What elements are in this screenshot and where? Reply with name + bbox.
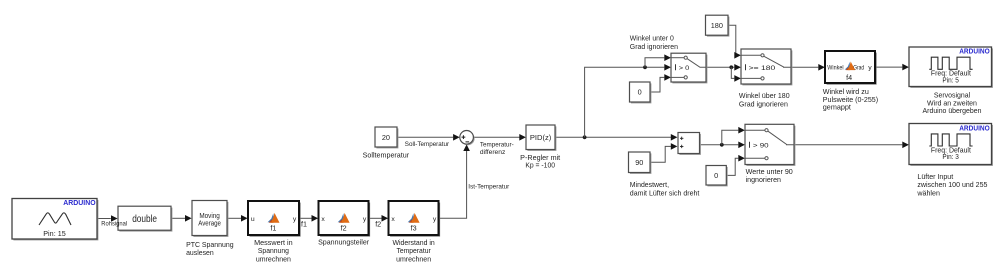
block: Arduino PWM Pin 3 (909, 124, 993, 166)
svg-text:f4: f4 (846, 73, 852, 82)
svg-text:x: x (391, 216, 395, 223)
svg-text:y: y (433, 216, 437, 223)
svg-text:180: 180 (711, 21, 723, 30)
block: constant 0 (lower) (706, 166, 728, 187)
svg-text:ARDUINO: ARDUINO (959, 124, 990, 133)
junction dot before switch1 (643, 65, 647, 69)
caption: Werte unter 90 ingnorieren (746, 167, 793, 184)
svg-text:Soll-Temperatur: Soll-Temperatur (405, 141, 450, 148)
svg-text:Rohsignal: Rohsignal (101, 221, 127, 228)
wire: constant 0 -> switch1 bottom input (650, 74, 671, 92)
caption: Winkel wird zu Pulsweite gemappt (823, 87, 878, 111)
svg-text:f2: f2 (341, 224, 347, 233)
svg-text:Solltemperatur: Solltemperatur (363, 150, 410, 159)
wire f2: f2 -> f3 (369, 215, 388, 222)
svg-text:gemappt: gemappt (823, 103, 851, 112)
junction dot before switch3 (720, 143, 724, 147)
block: sum junction circle (460, 131, 475, 146)
signal label Soll-Temperatur (405, 141, 450, 148)
svg-text:double: double (132, 214, 157, 225)
svg-text:ingnorieren: ingnorieren (746, 175, 781, 184)
block: switch2 greater equal 180 (741, 49, 792, 85)
svg-text:damit Lüfter sich dreht: damit Lüfter sich dreht (630, 188, 700, 197)
block: data type conversion double (118, 206, 172, 231)
wire: switch3 -> PWM pin3 (794, 142, 909, 149)
svg-text:Arduino übergeben: Arduino übergeben (923, 106, 982, 115)
svg-text:f3: f3 (411, 224, 417, 233)
svg-text:Grad ignorieren: Grad ignorieren (739, 99, 788, 108)
wire: Moving Average -> f1 (227, 215, 247, 222)
block: MATLAB Function f4 (825, 51, 877, 85)
signal label Rohsignal (101, 221, 127, 228)
wire f1: f1 -> f2 (299, 215, 318, 222)
block: constant 180 (706, 15, 730, 36)
svg-text:ARDUINO: ARDUINO (959, 47, 990, 56)
block: sum2 add rectangle (678, 133, 701, 155)
svg-text:0: 0 (714, 171, 718, 180)
wire branch: junction down to switch2 bottom input (731, 67, 741, 81)
block: constant 0 (upper) (630, 82, 652, 103)
block: MATLAB Function f1 (248, 201, 301, 237)
caption: Solltemperatur (363, 150, 410, 159)
block: Arduino PWM Pin 5 (909, 47, 993, 88)
wire: switch2 -> f4 (791, 64, 825, 71)
svg-text:20: 20 (382, 133, 390, 142)
signal label Ist-Temperatur (468, 184, 510, 191)
caption: Winkel unter 0 Grad ignorieren (630, 34, 678, 51)
caption: P-Regler mit Kp = -100 (520, 153, 560, 170)
caption: Widerstand in Temperatur umrechnen (392, 238, 434, 263)
svg-text:umrechnen: umrechnen (256, 254, 291, 263)
svg-text:f1: f1 (301, 219, 307, 228)
svg-text:y: y (868, 65, 872, 72)
wire Rohsignal: Arduino in -> double (97, 215, 117, 222)
block: Arduino Analog Input Pin 15 (12, 198, 98, 240)
wire: sum2 -> switch3 middle input (700, 142, 745, 149)
svg-text:auslesen: auslesen (186, 248, 214, 257)
wire branch: junction up to switch3 top input (722, 127, 745, 145)
svg-text:y: y (363, 216, 367, 223)
svg-text:f2: f2 (375, 219, 381, 228)
svg-text:>= 180: >= 180 (749, 65, 776, 72)
svg-text:umrechnen: umrechnen (396, 254, 431, 263)
svg-text:Temperatur-: Temperatur- (480, 141, 514, 148)
svg-text:ARDUINO: ARDUINO (63, 198, 95, 207)
caption: PTC Spannung auslesen (186, 240, 234, 257)
signal label f2 (375, 219, 381, 228)
svg-text:90: 90 (635, 158, 643, 167)
wire: constant 0b -> switch3 bottom input (727, 155, 745, 176)
block: MATLAB Function f3 (389, 201, 441, 237)
block: Moving Average (192, 201, 228, 237)
signal label f1 (301, 219, 307, 228)
svg-text:> 0: > 0 (679, 65, 690, 72)
svg-text:Grad: Grad (853, 65, 864, 72)
block: constant 20 Solltemperatur (375, 127, 398, 148)
svg-text:f1: f1 (270, 224, 276, 233)
caption: Messwert in Spannung umrechnen (254, 238, 293, 263)
svg-text:Average: Average (198, 219, 221, 228)
caption: Spannungsteiler (318, 238, 370, 247)
block: switch1 greater than 0 (671, 53, 707, 83)
svg-text:Winkel: Winkel (827, 65, 844, 72)
block: PID(z) controller (526, 125, 556, 151)
wire Soll-Temperatur: constant 20 -> sum (397, 134, 460, 141)
svg-text:x: x (321, 216, 325, 223)
wire: constant 180 -> switch2 top input (728, 25, 741, 58)
wire: switch1 -> switch2 middle input (706, 64, 741, 71)
svg-text:Spannungsteiler: Spannungsteiler (318, 238, 370, 247)
signal label Temperatur-differenz (480, 141, 514, 156)
caption: Servosignal Wird an zweiten Arduino uebergeben (923, 91, 982, 116)
wire: constant 90 -> sum2 bottom input (650, 143, 677, 162)
wire branch: junction up to switch1 top input (645, 54, 671, 67)
block: constant 90 Mindestwert (629, 152, 652, 174)
svg-text:Ist-Temperatur: Ist-Temperatur (468, 184, 510, 191)
wire: double -> Moving Average (171, 215, 191, 222)
caption: Mindestwert damit Luefter sich dreht (630, 180, 700, 197)
wire: PID -> sum2 lower branch (555, 134, 677, 141)
junction dot on PID output (583, 135, 587, 139)
junction dot before switch2 (729, 65, 733, 69)
svg-text:Pin: 3: Pin: 3 (942, 152, 959, 161)
svg-text:Kp = -100: Kp = -100 (525, 161, 555, 170)
svg-text:Pin: 15: Pin: 15 (43, 229, 66, 238)
block: MATLAB Function f2 (319, 201, 371, 237)
svg-text:differenz: differenz (480, 149, 505, 156)
svg-text:wählen: wählen (916, 188, 939, 197)
caption: Luefter Input zwischen 100 und 255 waehlen (916, 172, 987, 198)
svg-text:Pin: 5: Pin: 5 (942, 75, 959, 84)
wire: PID junction up to switch1 middle input (585, 64, 671, 137)
wire Temperaturdifferenz: sum -> PID (474, 134, 526, 141)
svg-text:Grad ignorieren: Grad ignorieren (630, 42, 678, 51)
svg-text:> 90: > 90 (753, 142, 769, 149)
wire Ist-Temperatur: f3 -> sum (439, 144, 470, 218)
caption: Winkel ueber 180 Grad ignorieren (739, 91, 790, 108)
wire: f4 -> PWM pin5 (876, 64, 909, 71)
svg-text:0: 0 (638, 88, 642, 97)
block: switch3 greater than 90 (745, 124, 795, 166)
svg-text:y: y (293, 216, 297, 223)
svg-text:PID(z): PID(z) (530, 133, 552, 142)
svg-text:u: u (251, 216, 255, 223)
